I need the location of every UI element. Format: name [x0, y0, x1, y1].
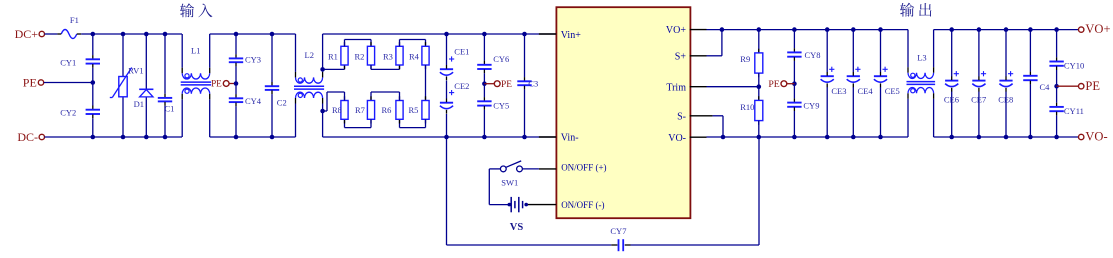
capacitor CE3	[821, 67, 847, 97]
svg-text:DC-: DC-	[17, 130, 38, 144]
wire CE5 column	[880, 30, 882, 137]
svg-text:VO-: VO-	[1085, 130, 1107, 144]
wire S+ riser	[707, 30, 722, 56]
resistor R6	[382, 96, 404, 123]
node PE/CY6/CY5	[482, 81, 487, 86]
wire R3-R4 top	[400, 40, 426, 47]
node VO-/CE4	[851, 135, 856, 140]
terminal DC-	[17, 130, 44, 144]
capacitor CE4	[847, 67, 874, 97]
svg-text:R1: R1	[328, 52, 338, 62]
capacitor CY5	[477, 97, 509, 110]
pin ON/OFF (-)	[527, 200, 605, 210]
wire L3 top-right lead	[933, 30, 935, 68]
svg-text:R9: R9	[740, 54, 750, 64]
pin S+	[675, 51, 707, 62]
svg-text:CY2: CY2	[60, 108, 76, 118]
node Vin+/C3	[522, 32, 527, 37]
node VO-/CE3	[825, 135, 830, 140]
node VO-/CY11	[1054, 135, 1059, 140]
wire CY5 column	[483, 84, 485, 137]
svg-text:ON/OFF (-): ON/OFF (-)	[561, 200, 604, 210]
wire CY8 column	[793, 30, 795, 84]
node PE/CY8/CY9	[792, 81, 797, 86]
capacitor CE5	[874, 67, 900, 97]
node VO-/CE7	[977, 135, 982, 140]
svg-text:Vin-: Vin-	[561, 133, 579, 144]
capacitor CY11	[1049, 103, 1084, 116]
node title output 输出	[900, 3, 932, 17]
svg-text:CY8: CY8	[805, 50, 821, 60]
wire CY10 column	[1056, 30, 1058, 87]
node VO-/C4	[1028, 135, 1033, 140]
node VO-/CE5	[878, 135, 883, 140]
inductor L1	[181, 46, 212, 100]
svg-text:R8: R8	[332, 105, 342, 115]
resistor R4	[409, 42, 429, 69]
svg-text:C3: C3	[528, 79, 538, 89]
node VO+/CY8	[792, 27, 797, 32]
svg-text:L2: L2	[305, 50, 314, 60]
wire CY3 column	[235, 34, 237, 84]
wire VO+ rail	[707, 29, 909, 31]
wire DC+ rail L1 to L2	[210, 33, 296, 35]
wire L3 top-left lead	[907, 30, 909, 68]
wire DC+ rail segment	[93, 33, 182, 35]
wire L1 bottom-right lead	[209, 99, 211, 137]
svg-text:CE4: CE4	[858, 86, 874, 96]
pin Vin-	[539, 133, 579, 144]
capacitor CE6	[944, 71, 959, 105]
terminal PE mid-left	[211, 79, 236, 89]
wire Vin- rail	[323, 111, 557, 137]
svg-text:Trim: Trim	[666, 82, 686, 93]
wire CY4 column	[235, 84, 237, 138]
svg-text:CY10: CY10	[1064, 61, 1084, 71]
svg-text:SW1: SW1	[501, 178, 518, 188]
capacitor CY9	[787, 98, 819, 111]
capacitor CY7	[610, 226, 630, 251]
svg-text:S-: S-	[677, 111, 686, 122]
wire C4 column	[1029, 30, 1031, 137]
svg-text:C4: C4	[1040, 82, 1051, 92]
svg-text:D1: D1	[134, 99, 144, 109]
svg-text:R5: R5	[409, 105, 419, 115]
svg-text:CE3: CE3	[831, 86, 846, 96]
battery VS	[508, 197, 529, 233]
wire SW1 to battery	[489, 169, 509, 205]
svg-text:S+: S+	[675, 51, 687, 62]
node VO+/CE4	[851, 27, 856, 32]
node Trim/R9/R10	[757, 84, 762, 89]
wire DC+ to fuse	[45, 33, 58, 35]
resistor R10	[740, 96, 763, 125]
capacitor C1	[158, 94, 175, 114]
svg-text:CY11: CY11	[1064, 106, 1084, 116]
inductor L2	[294, 50, 324, 104]
wire L2 bottom-right lead	[322, 104, 324, 112]
resistor R3	[383, 42, 403, 69]
capacitor CY2	[60, 106, 100, 119]
resistor R1	[328, 42, 348, 69]
wire DC- rail L1 to L2	[210, 136, 296, 138]
wire C3 column	[524, 34, 526, 137]
node VO+/R9	[757, 27, 762, 32]
wire R10 bottom lead	[758, 121, 760, 137]
svg-text:F1: F1	[70, 15, 79, 25]
capacitor CY4	[229, 94, 262, 106]
pin VO+	[666, 25, 707, 36]
wire CE3 column	[826, 30, 828, 137]
wire Vin+ rail	[323, 34, 557, 69]
terminal DC+	[15, 27, 45, 41]
wire S- riser	[713, 116, 723, 137]
node Vin+/CE1	[444, 32, 449, 37]
terminal VO-	[1079, 130, 1108, 144]
svg-text:ON/OFF (+): ON/OFF (+)	[561, 163, 606, 173]
svg-text:R4: R4	[409, 52, 420, 62]
wire C2 column	[271, 34, 273, 137]
pin Vin+	[539, 30, 581, 41]
wire R1 bottom feed	[323, 65, 345, 69]
node DC+/CY3	[234, 32, 239, 37]
node DC-/CY4	[234, 135, 239, 140]
wire CE1/CE2 column	[446, 34, 448, 137]
node VO-/S-	[721, 135, 726, 140]
resistor R9	[740, 49, 763, 78]
svg-text:PE: PE	[1085, 79, 1100, 93]
capacitor CY1	[60, 55, 100, 68]
node Vin-/R8	[320, 109, 325, 114]
svg-text:RV1: RV1	[128, 66, 143, 76]
node VO+/CE3	[825, 27, 830, 32]
node title input 输入	[180, 3, 213, 17]
resistor R5	[409, 96, 430, 123]
varistor RV1	[110, 66, 144, 98]
capacitor CY6	[477, 54, 509, 73]
capacitor CY10	[1049, 57, 1084, 70]
wire C1 column	[164, 34, 166, 137]
svg-text:CY3: CY3	[245, 54, 261, 64]
node VO-/CY9	[792, 135, 797, 140]
capacitor CY8	[787, 48, 820, 61]
svg-text:CY4: CY4	[245, 96, 262, 106]
capacitor CE2	[440, 81, 470, 114]
fuse F1	[57, 30, 81, 39]
node DC+/D1	[144, 32, 149, 37]
node DC-/C1	[163, 135, 168, 140]
label F1	[70, 15, 79, 25]
wire fuse to rail	[81, 33, 93, 35]
svg-text:DC+: DC+	[15, 27, 39, 41]
svg-text:L1: L1	[191, 46, 200, 56]
capacitor C2	[265, 82, 287, 108]
svg-text:R10: R10	[740, 102, 754, 112]
wire L2 top-left lead	[295, 34, 297, 72]
pin VO-	[668, 133, 706, 144]
svg-text:C2: C2	[277, 98, 287, 108]
wire L1 bottom-left lead	[181, 99, 183, 137]
terminal VO+	[1079, 22, 1111, 36]
wire Vin- to CY7	[447, 137, 612, 245]
svg-text:CY7: CY7	[610, 226, 626, 236]
svg-text:CY6: CY6	[493, 54, 509, 64]
wire L3 bottom-left lead	[907, 99, 909, 137]
resistor R2	[355, 42, 375, 69]
wire CE6 column	[951, 30, 953, 137]
svg-text:C1: C1	[165, 104, 175, 114]
wire R2-R3 bottom	[371, 65, 400, 69]
wire CY7 to VO- rail	[631, 137, 760, 245]
svg-text:CE8: CE8	[998, 95, 1013, 105]
resistor R7	[355, 96, 375, 123]
capacitor CE7	[971, 71, 986, 105]
wire CY6 column	[483, 34, 485, 84]
wire CY2 column	[92, 83, 94, 138]
wire DC- rail	[45, 136, 183, 138]
wire R8 to Vin- node	[323, 92, 345, 111]
svg-text:CE7: CE7	[971, 95, 986, 105]
node VO+/CY10	[1054, 27, 1059, 32]
wire R6-R7 top	[371, 92, 400, 101]
node DC-/CY2	[91, 135, 96, 140]
wire RV1 column	[122, 34, 124, 137]
svg-text:Vin+: Vin+	[561, 30, 581, 41]
wire CE8 column	[1005, 30, 1007, 137]
svg-text:VO+: VO+	[666, 25, 686, 36]
pin ON/OFF (+)	[539, 163, 607, 173]
node Vin-/CE2/CY7	[444, 135, 449, 140]
pin Trim	[666, 82, 706, 93]
wire CE7 column	[978, 30, 980, 137]
terminal PE right-mid	[768, 79, 794, 90]
wire R9 top lead	[758, 30, 760, 53]
node Vin+/CY6	[482, 32, 487, 37]
svg-text:PE: PE	[211, 79, 222, 89]
node VO+/CE5	[878, 27, 883, 32]
svg-text:CE1: CE1	[454, 47, 469, 57]
node PE/CY10/CY11	[1054, 84, 1059, 89]
terminal PE right	[1057, 79, 1101, 93]
svg-text:PE: PE	[23, 76, 37, 90]
node PE/CY3/CY4	[234, 81, 239, 86]
node VO-/R10/CY7	[757, 135, 762, 140]
svg-text:R7: R7	[355, 105, 365, 115]
svg-text:VS: VS	[510, 222, 524, 233]
switch SW1	[500, 161, 522, 188]
node VO+/S+	[720, 27, 725, 32]
wire CE4 column	[852, 30, 854, 137]
wire Trim link	[707, 73, 759, 100]
svg-text:PE: PE	[501, 80, 512, 90]
node DC+/RV1	[121, 32, 126, 37]
node VO+/CE8	[1004, 27, 1009, 32]
wire L1 top-right lead	[209, 34, 211, 68]
svg-text:VO+: VO+	[1085, 22, 1110, 36]
node DC-/C2	[270, 135, 275, 140]
capacitor CE1	[440, 47, 470, 81]
svg-text:CY1: CY1	[60, 57, 76, 67]
capacitor C4	[1023, 72, 1050, 92]
wire R7-R8 bottom	[345, 119, 372, 127]
wire VO+ rail right	[934, 29, 1079, 31]
wire CY1 column	[92, 34, 94, 83]
svg-text:R3: R3	[383, 52, 393, 62]
svg-text:R6: R6	[382, 105, 392, 115]
node VO-/CE8	[1004, 135, 1009, 140]
node Vin-/CY5	[482, 135, 487, 140]
node Vin-/C3	[522, 135, 527, 140]
node Vin+/R1	[320, 67, 325, 72]
svg-text:PE: PE	[768, 79, 779, 90]
node PE/CY1/CY2	[91, 80, 96, 85]
svg-text:CY5: CY5	[493, 101, 509, 111]
node VO+/CE7	[977, 27, 982, 32]
svg-text:CE5: CE5	[885, 86, 900, 96]
capacitor C3	[517, 77, 538, 89]
wire L1 top-left lead	[181, 34, 183, 68]
node VO+/CE6	[949, 27, 954, 32]
wire L2 bottom-left lead	[295, 104, 297, 138]
wire VO- rail right	[934, 136, 1079, 138]
resistor R8	[332, 96, 348, 123]
svg-text:L3: L3	[917, 52, 926, 62]
wire CY9 column	[793, 84, 795, 137]
node DC+/C2	[270, 32, 275, 37]
wire switch feed	[522, 168, 539, 170]
wire R1-R2 top	[345, 40, 372, 47]
node VO+/C4	[1028, 27, 1033, 32]
capacitor CE8	[998, 71, 1013, 105]
svg-text:CE2: CE2	[454, 81, 469, 91]
inductor L3	[907, 52, 936, 99]
op-amp U1 DC-DC module body	[556, 7, 690, 218]
pin S-	[677, 111, 713, 122]
wire PE to CY1/CY2 node	[44, 82, 93, 84]
wire R4-R5 link	[425, 65, 427, 101]
node VO-/CE6	[949, 135, 954, 140]
wire VO- rail	[707, 136, 909, 138]
svg-text:CE6: CE6	[944, 95, 959, 105]
wire CY11 column	[1056, 86, 1058, 137]
wire L2 top-right lead	[322, 69, 324, 72]
diode D1	[134, 89, 154, 109]
capacitor CY3	[229, 54, 261, 66]
node DC-/D1	[144, 135, 149, 140]
wire R5-R6 bottom	[400, 119, 426, 127]
svg-text:R2: R2	[355, 52, 365, 62]
svg-text:VO-: VO-	[668, 133, 686, 144]
terminal PE mid	[484, 80, 512, 90]
node DC+/C1	[163, 32, 168, 37]
svg-text:CY9: CY9	[803, 101, 819, 111]
node DC-/RV1	[121, 135, 126, 140]
node DC+/CY1	[91, 32, 96, 37]
terminal PE left	[23, 76, 44, 90]
wire L3 bottom-right lead	[933, 99, 935, 137]
wire D1 column	[145, 34, 147, 137]
